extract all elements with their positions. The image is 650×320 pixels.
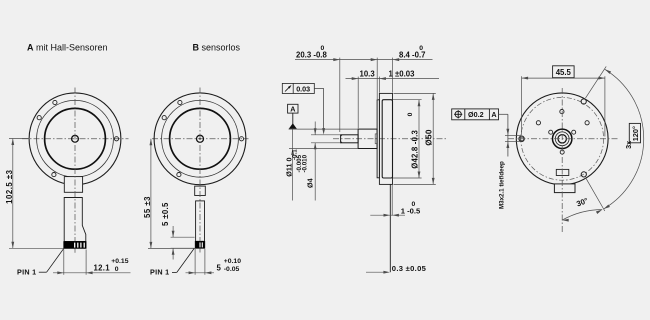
svg-text:A: A — [290, 105, 295, 114]
rear view: center hub rings — [553, 129, 572, 148]
top dimension line: 20.3 and 8.4 — [295, 59, 433, 61]
rear view: M3 thread hole lower right — [581, 172, 586, 177]
view B: ribbon cable — [196, 201, 205, 241]
view B: rotor magnet circle — [170, 108, 231, 169]
svg-text:B sensorlos: B sensorlos — [193, 43, 241, 53]
side view: mounting spigot 1mm D42.8 — [377, 100, 379, 178]
svg-text:+0.10: +0.10 — [224, 258, 241, 265]
extension lines for top dims — [339, 58, 341, 132]
svg-text:0.03: 0.03 — [296, 84, 310, 93]
svg-text:0: 0 — [407, 112, 414, 116]
svg-text:1 -0.5: 1 -0.5 — [401, 207, 421, 216]
side view: centerline — [333, 138, 448, 140]
radial extension line lower-right hole — [586, 178, 605, 211]
dimension D42.8 0/-0.3 — [393, 99, 422, 101]
view B: motor outer housing circle D50 — [154, 93, 246, 185]
dimension 1 -0.5/0 (cable offset) — [370, 214, 405, 216]
svg-text:55 ±3: 55 ±3 — [143, 196, 152, 218]
rear view: three winding terminals — [572, 130, 576, 134]
svg-text:10.3: 10.3 — [360, 69, 376, 78]
svg-text:Ø4: Ø4 — [306, 178, 315, 188]
svg-text:0: 0 — [115, 266, 119, 273]
rear view: M3 thread hole left — [519, 136, 525, 142]
svg-text:102.5 ±3: 102.5 ±3 — [5, 169, 14, 203]
svg-text:PIN 1: PIN 1 — [17, 268, 36, 277]
rear view: M3 thread hole upper right — [581, 99, 586, 104]
radial extension line upper-right hole — [586, 66, 607, 98]
view A: ribbon cable body with chamfer — [64, 198, 86, 242]
dimension 5 +0.10/-0.05 — [194, 249, 196, 275]
view A: shaft circle D4 — [72, 135, 79, 142]
dimension 0.3 +-0.05 (cable thickness) — [366, 271, 386, 273]
datum A symbol — [288, 104, 298, 113]
view B: centerline vertical — [199, 88, 201, 242]
dimension D50 — [394, 92, 436, 94]
rear view: centerline horizontal — [508, 138, 618, 140]
view B: shaft circle with center — [197, 135, 204, 142]
side view: ribbon cable hanging at back — [389, 184, 391, 272]
dimension 55 +-3 vertical — [148, 247, 195, 249]
svg-text:5 ±0.5: 5 ±0.5 — [161, 202, 170, 226]
svg-text:PIN 1: PIN 1 — [150, 268, 169, 277]
dimension 102.5 +-3 vertical — [9, 138, 30, 140]
svg-text:-0.010: -0.010 — [301, 154, 308, 172]
svg-text:M3x2.1 tief/deep: M3x2.1 tief/deep — [498, 161, 505, 209]
svg-text:0: 0 — [321, 45, 325, 52]
side view: shaft tip chamfer — [341, 135, 342, 136]
side view: shaft D4 — [341, 135, 359, 143]
svg-text:12.1: 12.1 — [94, 264, 111, 273]
svg-text:3x: 3x — [624, 141, 633, 149]
position tolerance frame 0.2 A — [452, 109, 499, 120]
view B: connector pin stripes — [199, 242, 201, 247]
svg-text:0: 0 — [419, 45, 423, 52]
svg-text:45.5: 45.5 — [556, 68, 572, 77]
side view: motor can D50 — [379, 93, 392, 184]
svg-text:A mit Hall-Sensoren: A mit Hall-Sensoren — [27, 43, 108, 53]
dimension D11 0/-0.1 — [289, 128, 359, 130]
view A: centerline vertical — [74, 88, 76, 242]
svg-text:5: 5 — [217, 264, 222, 273]
circular runout frame 0.03 — [282, 83, 314, 93]
svg-text:Ø42.8 -0.3: Ø42.8 -0.3 — [410, 129, 419, 168]
view B: cable neck — [195, 186, 206, 195]
view A: mounting holes on bolt circle — [114, 137, 118, 141]
dimension D4 -0.005/-0.010 — [311, 134, 341, 136]
rear view: bolt circle D45.5 (dash-dot) — [521, 97, 604, 180]
second dimension line: 10.3 and 1 +-0.03 — [346, 78, 440, 80]
view B: mounting holes on bolt circle — [239, 137, 243, 141]
rear view: centerline vertical — [561, 88, 563, 233]
view A: connector pin stripes — [74, 243, 76, 248]
view B: mounting spigot circle D42.8 — [162, 100, 239, 177]
svg-text:+0.15: +0.15 — [111, 258, 128, 265]
arc dimension 30deg — [562, 210, 602, 221]
side view: bearing hub D11 — [358, 129, 377, 148]
svg-text:120°: 120° — [631, 126, 640, 141]
dimension 5 +-0.5 — [171, 236, 195, 238]
dimension 45.5 (boxed) — [522, 77, 605, 79]
side view: back face extension — [391, 184, 393, 215]
dimension 12.1 +0.15/0 — [63, 250, 65, 275]
view A: mounting spigot circle D42.8 — [37, 100, 114, 177]
rear view: cable exit bump below housing — [554, 184, 575, 193]
svg-text:-0.05: -0.05 — [224, 266, 240, 273]
runout leader to shaft — [314, 87, 323, 89]
rear view: three vent holes — [536, 121, 540, 125]
leader from position frame to M3 hole dimension — [499, 113, 508, 115]
side view: shaft boss at flange — [375, 134, 377, 144]
view A: connector black band — [64, 242, 87, 249]
arc dimension 3x 120deg — [604, 69, 644, 209]
view B: centerline horizontal — [152, 138, 249, 140]
view A: motor outer housing circle D50 — [29, 93, 121, 185]
svg-text:Ø0.2: Ø0.2 — [468, 110, 484, 119]
view A: centerline horizontal — [22, 138, 129, 140]
view B: connector black band — [195, 241, 205, 248]
svg-text:A: A — [491, 110, 496, 119]
svg-text:Ø50: Ø50 — [424, 129, 433, 146]
rear view: housing circle D50 — [516, 93, 608, 185]
rear view: cable exit marking inside — [556, 169, 569, 175]
svg-text:0.3 ±0.05: 0.3 ±0.05 — [392, 264, 427, 273]
view A: cable neck — [64, 177, 82, 193]
view A: rotor magnet circle — [45, 108, 106, 169]
side view: stator stack inner outline — [382, 100, 392, 178]
